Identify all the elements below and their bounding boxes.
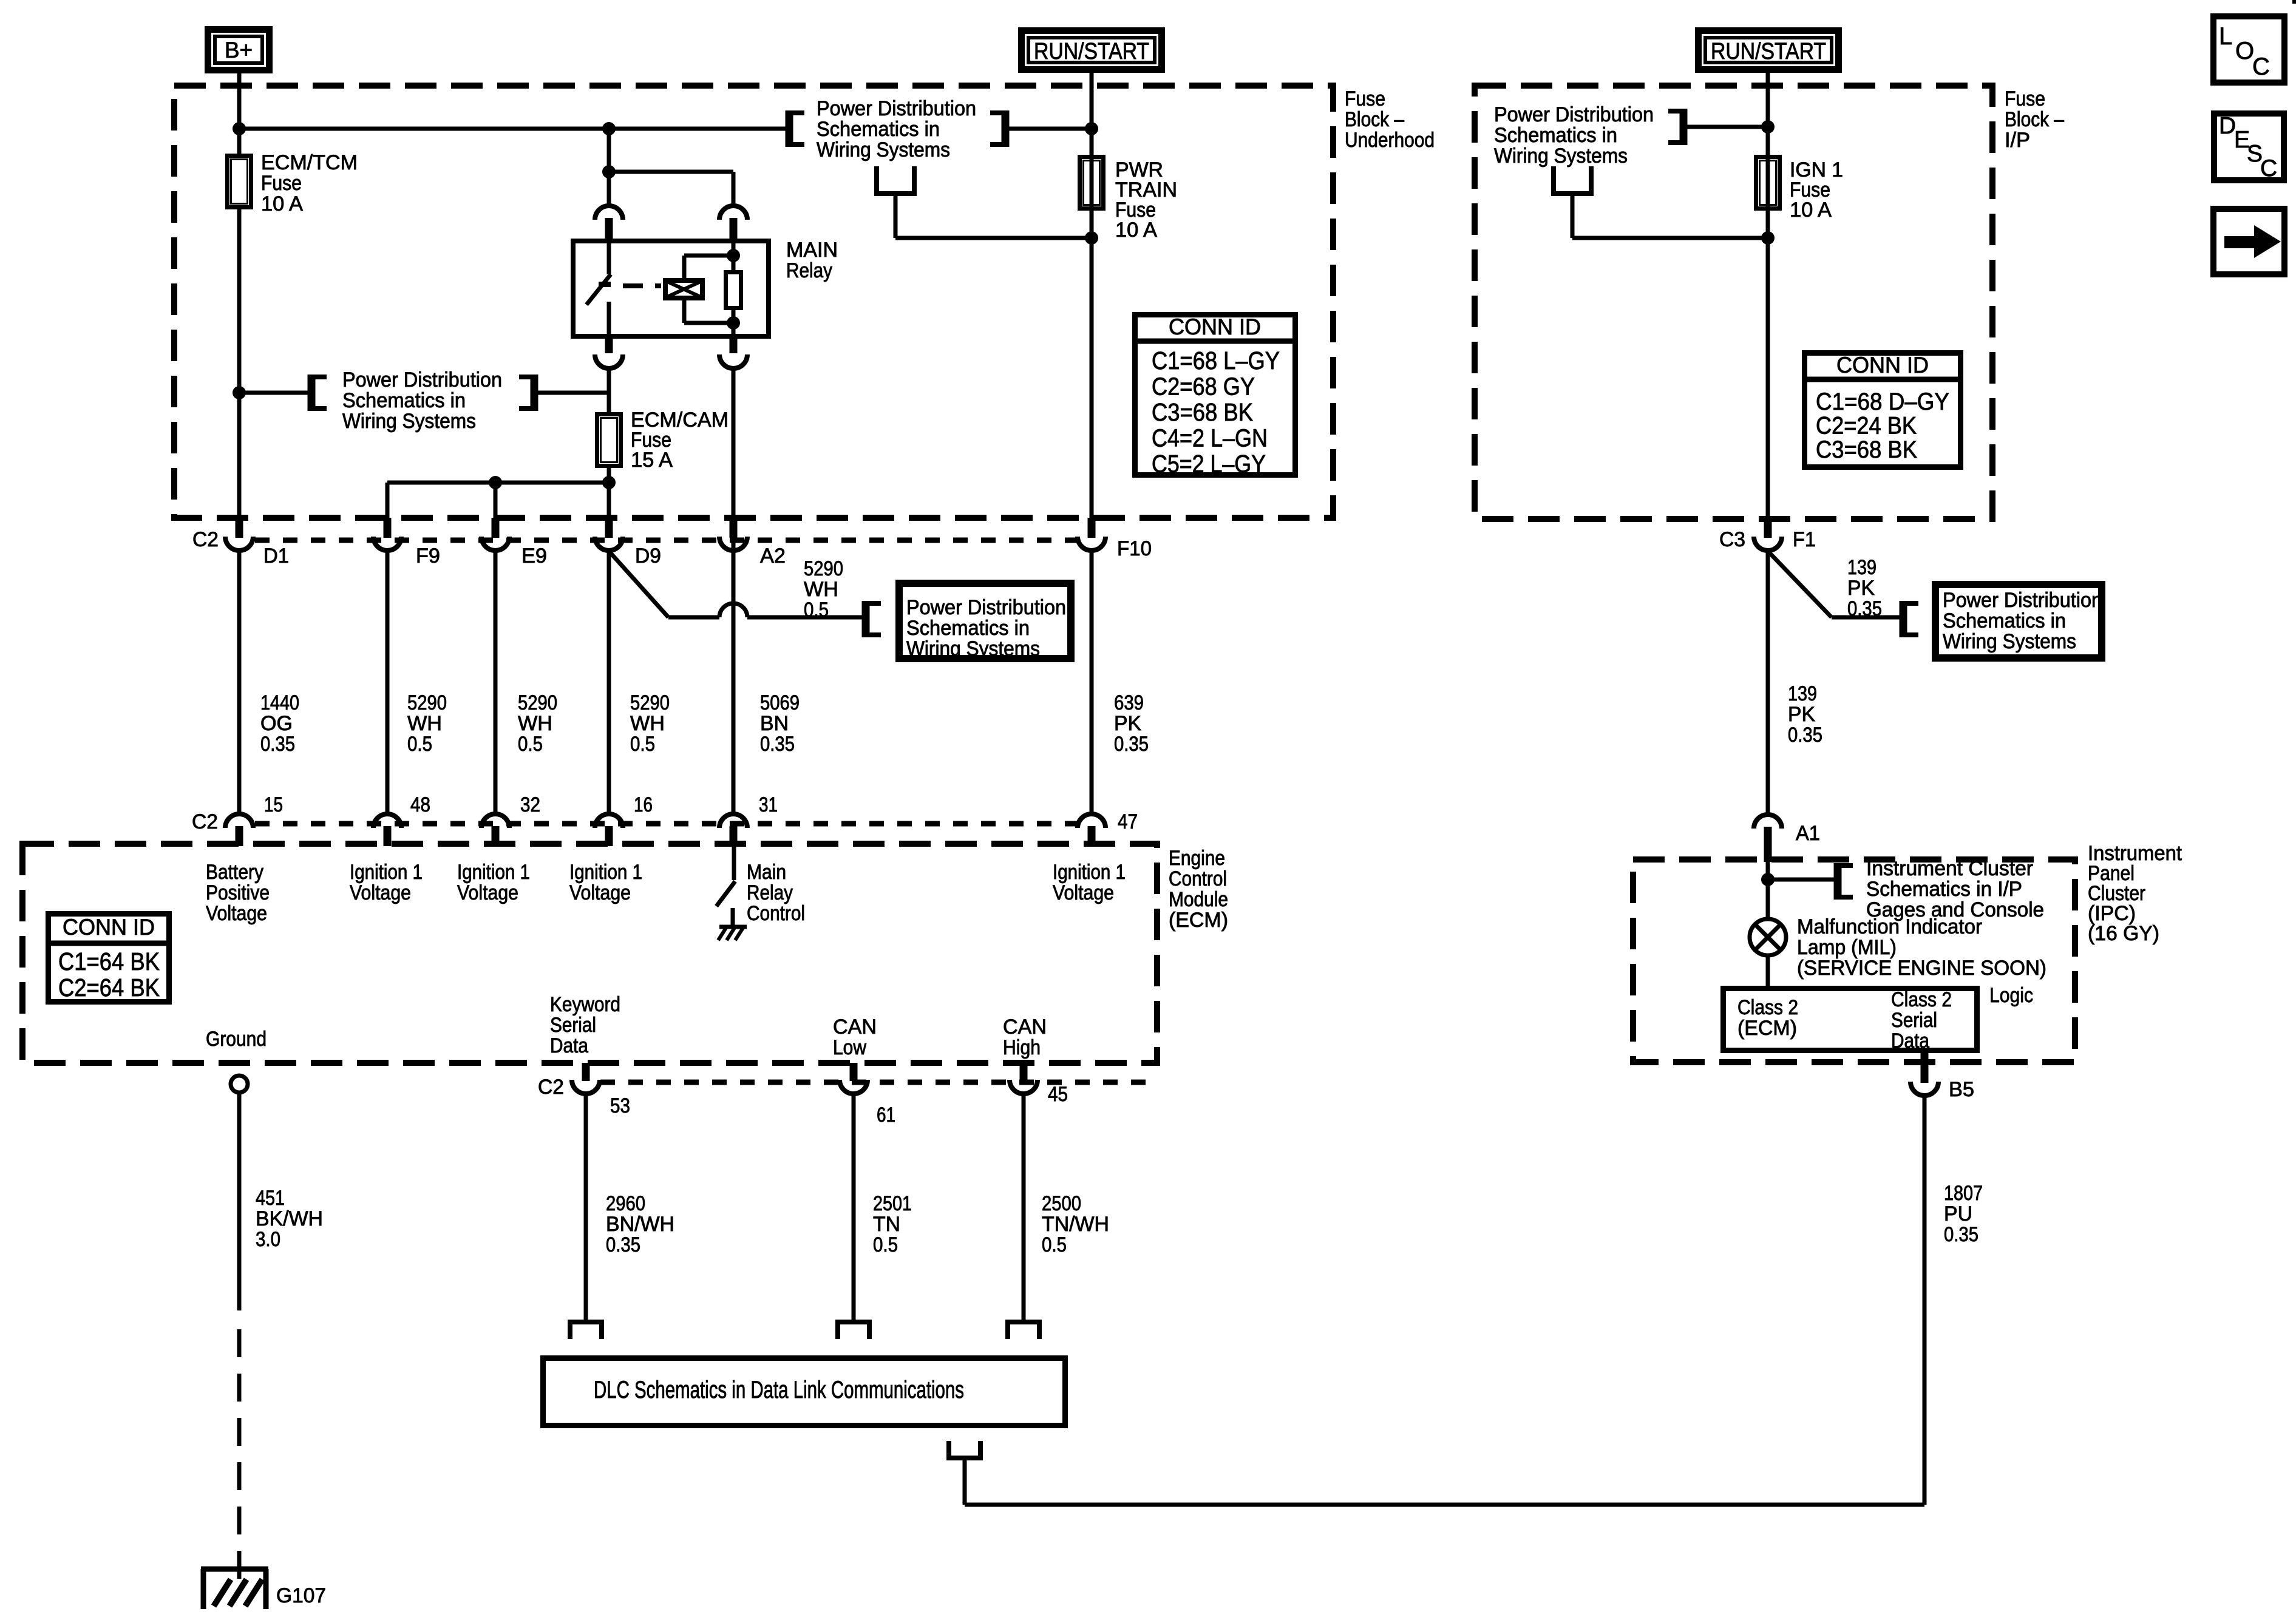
- svg-text:0.35: 0.35: [760, 733, 795, 756]
- svg-text:53: 53: [610, 1094, 630, 1117]
- svg-text:High: High: [1003, 1036, 1041, 1059]
- svg-text:C4=2 L–GN: C4=2 L–GN: [1152, 424, 1268, 452]
- svg-text:Power Distribution: Power Distribution: [342, 368, 502, 392]
- svg-text:Schematics in: Schematics in: [817, 118, 940, 141]
- svg-text:Block –: Block –: [1345, 108, 1404, 131]
- svg-text:Serial: Serial: [1891, 1009, 1937, 1032]
- svg-text:Relay: Relay: [786, 259, 832, 282]
- svg-text:DLC Schematics in Data Link Co: DLC Schematics in Data Link Communicatio…: [594, 1377, 964, 1403]
- svg-text:Keyword: Keyword: [550, 993, 620, 1016]
- svg-text:I/P: I/P: [2005, 129, 2030, 152]
- svg-text:C: C: [2260, 155, 2277, 181]
- svg-text:B+: B+: [225, 38, 253, 63]
- svg-text:Class 2: Class 2: [1737, 996, 1798, 1019]
- svg-text:0.35: 0.35: [260, 733, 295, 756]
- svg-text:WH: WH: [630, 712, 665, 735]
- svg-text:61: 61: [877, 1103, 895, 1127]
- svg-text:Control: Control: [747, 902, 805, 925]
- svg-text:C1=68 D–GY: C1=68 D–GY: [1816, 388, 1949, 415]
- svg-text:C2=68 GY: C2=68 GY: [1152, 373, 1255, 401]
- svg-text:2501: 2501: [873, 1192, 912, 1215]
- svg-text:48: 48: [410, 793, 430, 816]
- svg-text:(16 GY): (16 GY): [2088, 922, 2159, 945]
- svg-text:(ECM): (ECM): [1169, 909, 1228, 932]
- svg-text:L: L: [2219, 23, 2232, 50]
- svg-text:Block –: Block –: [2005, 108, 2064, 131]
- svg-text:Instrument Cluster: Instrument Cluster: [1866, 857, 2033, 880]
- svg-text:A1: A1: [1796, 822, 1820, 845]
- svg-text:1440: 1440: [260, 691, 299, 714]
- svg-text:Voltage: Voltage: [569, 881, 631, 904]
- svg-text:C2: C2: [192, 810, 218, 833]
- svg-text:45: 45: [1048, 1083, 1068, 1106]
- svg-text:Logic: Logic: [1989, 984, 2033, 1007]
- svg-text:PK: PK: [1114, 712, 1141, 735]
- svg-text:10 A: 10 A: [1115, 219, 1157, 242]
- svg-text:5290: 5290: [407, 691, 447, 714]
- svg-text:Fuse: Fuse: [261, 172, 302, 195]
- svg-text:BN/WH: BN/WH: [606, 1213, 674, 1236]
- svg-text:A2: A2: [760, 544, 786, 568]
- svg-text:Ignition 1: Ignition 1: [569, 861, 642, 884]
- svg-text:0.35: 0.35: [1788, 724, 1822, 747]
- svg-text:Positive: Positive: [206, 881, 270, 904]
- svg-text:Ignition 1: Ignition 1: [457, 861, 530, 884]
- svg-text:Class 2: Class 2: [1891, 988, 1952, 1011]
- svg-text:C3: C3: [1719, 528, 1745, 551]
- svg-text:0.5: 0.5: [873, 1233, 898, 1256]
- svg-text:0.35: 0.35: [606, 1233, 640, 1256]
- svg-text:F9: F9: [416, 544, 440, 568]
- svg-text:0.5: 0.5: [407, 733, 432, 756]
- svg-text:0.5: 0.5: [804, 598, 829, 622]
- svg-text:0.35: 0.35: [1944, 1223, 1978, 1246]
- svg-text:Battery: Battery: [206, 861, 263, 884]
- svg-text:Wiring Systems: Wiring Systems: [817, 138, 950, 161]
- svg-text:Power Distribution: Power Distribution: [906, 596, 1066, 619]
- svg-text:C1=68 L–GY: C1=68 L–GY: [1152, 347, 1280, 375]
- svg-text:Lamp (MIL): Lamp (MIL): [1797, 936, 1897, 959]
- svg-text:CONN ID: CONN ID: [63, 915, 155, 940]
- svg-text:Relay: Relay: [747, 881, 793, 904]
- svg-text:Schematics in: Schematics in: [1494, 124, 1617, 147]
- svg-text:5069: 5069: [760, 691, 800, 714]
- svg-text:2500: 2500: [1042, 1192, 1081, 1215]
- svg-text:Underhood: Underhood: [1345, 129, 1435, 152]
- svg-text:Schematics in I/P: Schematics in I/P: [1866, 878, 2022, 901]
- svg-text:F1: F1: [1793, 528, 1816, 551]
- svg-text:Main: Main: [747, 861, 786, 884]
- svg-text:15: 15: [264, 793, 283, 816]
- svg-text:PU: PU: [1944, 1202, 1972, 1225]
- svg-text:451: 451: [256, 1187, 285, 1210]
- svg-text:OG: OG: [260, 712, 293, 735]
- svg-text:1807: 1807: [1944, 1182, 1983, 1205]
- svg-text:Module: Module: [1169, 888, 1228, 911]
- svg-text:3.0: 3.0: [256, 1228, 280, 1251]
- svg-text:G107: G107: [276, 1584, 326, 1607]
- svg-text:Ignition 1: Ignition 1: [1053, 861, 1126, 884]
- svg-text:139: 139: [1847, 556, 1877, 579]
- svg-text:Power Distribution: Power Distribution: [1943, 589, 2102, 612]
- svg-text:(SERVICE ENGINE SOON): (SERVICE ENGINE SOON): [1797, 957, 2046, 980]
- svg-text:Ground: Ground: [206, 1028, 267, 1051]
- svg-text:139: 139: [1788, 682, 1817, 705]
- svg-text:31: 31: [759, 793, 778, 816]
- svg-text:C2=24 BK: C2=24 BK: [1816, 413, 1917, 439]
- svg-text:(ECM): (ECM): [1737, 1017, 1797, 1040]
- svg-text:10 A: 10 A: [261, 192, 303, 215]
- svg-text:639: 639: [1114, 691, 1144, 714]
- svg-text:TN: TN: [873, 1213, 900, 1236]
- svg-text:Fuse: Fuse: [1345, 87, 1385, 110]
- svg-text:Wiring Systems: Wiring Systems: [1943, 630, 2076, 653]
- svg-text:C3=68 BK: C3=68 BK: [1152, 398, 1253, 426]
- svg-text:15 A: 15 A: [631, 449, 673, 472]
- svg-text:Ignition 1: Ignition 1: [350, 861, 423, 884]
- svg-text:Voltage: Voltage: [457, 881, 518, 904]
- svg-text:C5=2 L–GY: C5=2 L–GY: [1152, 450, 1266, 478]
- svg-text:C2=64 BK: C2=64 BK: [58, 974, 160, 1002]
- svg-text:0.5: 0.5: [630, 733, 655, 756]
- svg-text:Data: Data: [1891, 1029, 1929, 1053]
- svg-text:E9: E9: [521, 544, 547, 568]
- svg-text:D9: D9: [635, 544, 661, 568]
- svg-text:0.35: 0.35: [1847, 597, 1882, 620]
- svg-text:RUN/START: RUN/START: [1711, 39, 1826, 64]
- svg-text:C2: C2: [538, 1076, 564, 1099]
- svg-text:Low: Low: [833, 1036, 866, 1059]
- svg-text:0.5: 0.5: [1042, 1233, 1067, 1256]
- svg-text:Schematics in: Schematics in: [1943, 609, 2066, 632]
- svg-text:Engine: Engine: [1169, 847, 1225, 870]
- svg-text:WH: WH: [407, 712, 442, 735]
- svg-text:16: 16: [634, 793, 653, 816]
- svg-text:CAN: CAN: [1003, 1015, 1047, 1039]
- svg-text:CAN: CAN: [833, 1015, 877, 1039]
- svg-text:Wiring Systems: Wiring Systems: [1494, 144, 1628, 168]
- svg-text:Malfunction Indicator: Malfunction Indicator: [1797, 915, 1982, 938]
- svg-text:5290: 5290: [804, 557, 843, 580]
- svg-text:D1: D1: [263, 544, 289, 568]
- svg-text:Power Distribution: Power Distribution: [1494, 103, 1654, 126]
- svg-text:C3=68 BK: C3=68 BK: [1816, 436, 1917, 463]
- svg-text:BN: BN: [760, 712, 789, 735]
- svg-text:5290: 5290: [518, 691, 557, 714]
- svg-text:BK/WH: BK/WH: [256, 1207, 323, 1230]
- svg-text:CONN ID: CONN ID: [1836, 353, 1929, 378]
- svg-text:WH: WH: [518, 712, 552, 735]
- svg-text:D: D: [2219, 113, 2236, 139]
- svg-text:Voltage: Voltage: [206, 902, 267, 925]
- svg-text:O: O: [2235, 38, 2254, 64]
- svg-text:10 A: 10 A: [1790, 198, 1832, 222]
- svg-text:ECM/TCM: ECM/TCM: [261, 151, 358, 174]
- svg-text:Power Distribution: Power Distribution: [817, 97, 976, 120]
- svg-text:Wiring Systems: Wiring Systems: [906, 637, 1040, 660]
- svg-text:CONN ID: CONN ID: [1169, 314, 1261, 339]
- svg-text:0.35: 0.35: [1114, 733, 1149, 756]
- svg-text:47: 47: [1118, 810, 1138, 833]
- svg-text:F10: F10: [1117, 537, 1152, 560]
- svg-text:Wiring Systems: Wiring Systems: [342, 410, 476, 433]
- svg-text:B5: B5: [1949, 1078, 1974, 1101]
- svg-text:0.5: 0.5: [518, 733, 543, 756]
- svg-text:C1=64 BK: C1=64 BK: [58, 947, 160, 975]
- svg-text:Schematics in: Schematics in: [906, 617, 1030, 640]
- svg-text:WH: WH: [804, 578, 838, 601]
- svg-text:Schematics in: Schematics in: [342, 389, 466, 412]
- svg-text:C: C: [2252, 53, 2270, 80]
- svg-text:TN/WH: TN/WH: [1042, 1213, 1109, 1236]
- svg-text:Voltage: Voltage: [1053, 881, 1114, 904]
- svg-text:Data: Data: [550, 1034, 588, 1057]
- svg-text:32: 32: [520, 793, 540, 816]
- svg-text:2960: 2960: [606, 1192, 645, 1215]
- svg-text:5290: 5290: [630, 691, 670, 714]
- svg-text:PK: PK: [1847, 577, 1875, 600]
- svg-text:RUN/START: RUN/START: [1034, 39, 1149, 64]
- svg-text:MAIN: MAIN: [786, 239, 838, 262]
- svg-text:Voltage: Voltage: [350, 881, 411, 904]
- svg-text:Fuse: Fuse: [2005, 87, 2045, 110]
- svg-text:Control: Control: [1169, 867, 1227, 890]
- svg-text:C2: C2: [192, 528, 219, 551]
- svg-text:PK: PK: [1788, 703, 1815, 726]
- svg-text:Serial: Serial: [550, 1014, 596, 1037]
